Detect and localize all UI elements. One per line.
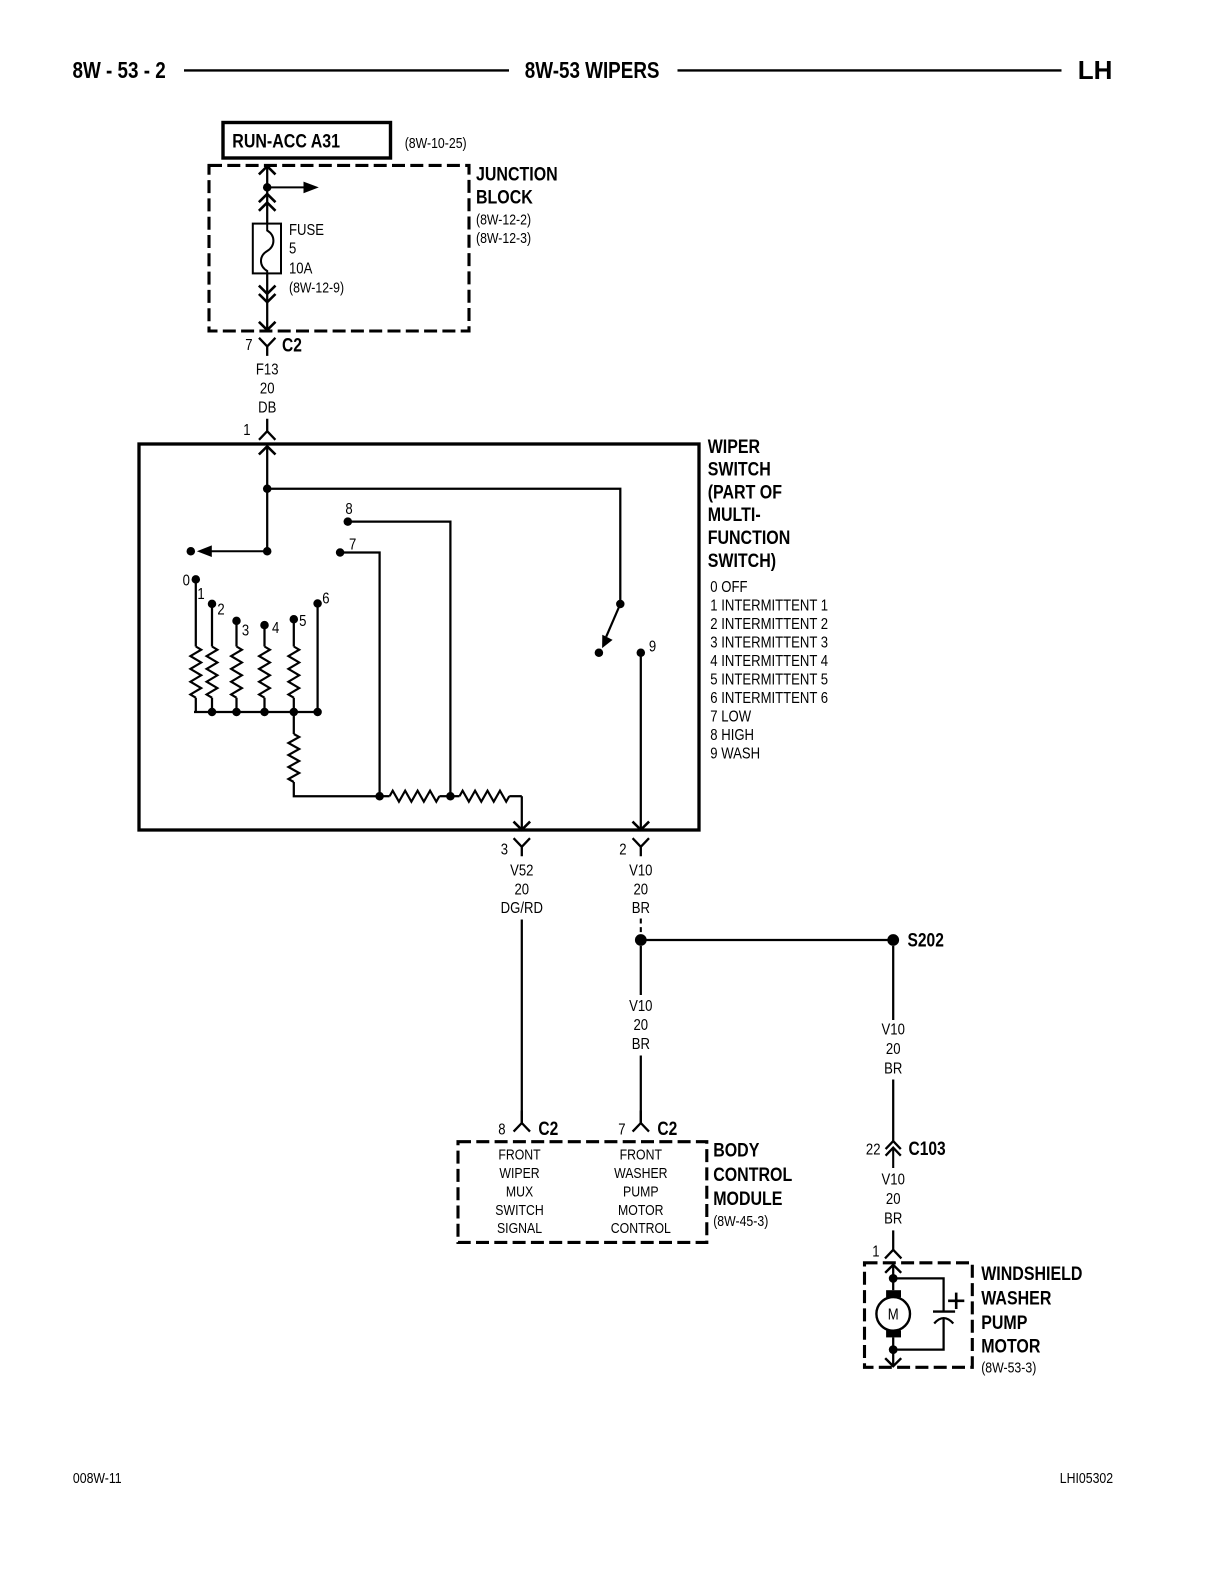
svg-text:9 WASH: 9 WASH [710,746,760,763]
wire: V10 to BCM lower [640,1056,642,1124]
svg-text:5: 5 [299,613,306,630]
svg-text:PUMP: PUMP [623,1183,659,1199]
resistor R8 [450,791,521,802]
svg-text:V10: V10 [629,998,652,1015]
resistor R5 (intermittent 5) [288,619,299,712]
capacitor polarity plus [948,1293,964,1309]
svg-text:SIGNAL: SIGNAL [497,1220,542,1236]
node: feed splice in junction block [263,183,272,192]
svg-text:20: 20 [886,1041,901,1058]
label 1 [197,586,204,603]
svg-text:MUX: MUX [506,1183,533,1199]
node: contact 5 [290,615,299,624]
svg-text:5 INTERMITTENT 5: 5 INTERMITTENT 5 [710,671,828,688]
svg-text:4 INTERMITTENT 4: 4 INTERMITTENT 4 [710,653,828,670]
wiper switch box [139,444,699,830]
wire: to connector C103 [892,1080,894,1141]
label 0 [183,572,190,589]
body control module box (dashed) [458,1142,707,1243]
wire: contact 6 to bus [316,604,318,713]
svg-text:BODY: BODY [713,1139,759,1161]
connector C2 pin 8 (BCM) [498,1111,558,1140]
junction block labels [476,163,558,246]
node: R7 junction [375,792,384,801]
svg-text:MOTOR: MOTOR [618,1202,664,1218]
svg-text:F13: F13 [256,361,279,378]
svg-text:(8W-12-9): (8W-12-9) [289,279,344,295]
wire: contact 7 branch [340,553,380,797]
svg-text:2: 2 [619,841,626,858]
svg-text:BR: BR [632,900,650,917]
svg-text:DB: DB [258,399,276,416]
svg-text:2 INTERMITTENT 2: 2 INTERMITTENT 2 [710,616,828,633]
svg-text:(PART OF: (PART OF [708,481,782,503]
footer sheet codes [73,1470,1113,1486]
svg-text:WASHER: WASHER [614,1165,668,1181]
wire: feed to wash contact branch [267,489,620,604]
wiper switch labels [708,435,791,571]
node: bus junction x317 [313,708,322,717]
connector C2 pin 7 [245,334,302,356]
node: bus junction x264 [260,708,269,717]
svg-text:1: 1 [243,422,250,439]
wire: V10 into splice (dashed) [640,919,642,934]
node: R8 junction [446,792,455,801]
svg-text:FRONT: FRONT [620,1146,663,1162]
svg-text:(8W-45-3): (8W-45-3) [713,1213,768,1229]
svg-text:3: 3 [242,622,249,639]
motor M1 washer pump [876,1290,910,1337]
svg-text:1: 1 [197,586,204,603]
svg-text:7: 7 [618,1121,625,1138]
svg-text:FUNCTION: FUNCTION [708,527,791,549]
node: contact 6 [313,599,322,608]
node: wiper arm junction [263,547,272,556]
svg-text:7 LOW: 7 LOW [710,708,751,725]
wire: V52 run [521,920,523,1124]
node: motor output junction [889,1345,898,1354]
wire label V52 20 DG/RD [501,862,543,917]
switch blade (wash) [602,604,620,648]
svg-text:BR: BR [632,1036,650,1053]
svg-text:BR: BR [884,1060,902,1077]
wire: splice S202 tie [641,939,893,941]
wire: motor ground side [892,1337,894,1365]
svg-text:DG/RD: DG/RD [501,900,543,917]
svg-text:WASHER: WASHER [981,1287,1051,1309]
ref (8W-10-25) [405,135,467,151]
resistor R4 (intermittent 4) [259,625,270,712]
label 6 [322,591,329,608]
node: contact 3 [232,617,241,626]
svg-text:S202: S202 [908,929,944,951]
node: feed junction A [263,485,272,494]
svg-text:M: M [888,1307,899,1324]
svg-text:FUSE: FUSE [289,222,324,239]
svg-text:8W - 53 - 2: 8W - 53 - 2 [73,58,166,83]
washer pump labels [981,1263,1082,1376]
wire: wash output [633,653,650,830]
svg-text:9: 9 [649,638,656,655]
svg-text:C103: C103 [909,1138,947,1160]
label 5 [299,613,306,630]
svg-text:WINDSHIELD: WINDSHIELD [981,1263,1082,1285]
label 4 [272,620,279,637]
svg-text:7: 7 [349,536,356,553]
svg-text:SWITCH: SWITCH [708,458,771,480]
label 7 [349,536,356,553]
node: wash switch pivot [616,600,625,609]
svg-text:LHI05302: LHI05302 [1060,1470,1113,1486]
resistor bus [194,711,318,713]
power feed box RUN-ACC A31 [223,123,391,159]
svg-text:(8W-53-3): (8W-53-3) [981,1360,1036,1376]
svg-text:RUN-ACC A31: RUN-ACC A31 [232,130,340,152]
page header [73,55,1113,85]
svg-text:PUMP: PUMP [981,1311,1027,1333]
wire: V10 to BCM [640,946,642,995]
connector C103 pin 22 [866,1138,946,1168]
node: contact 1 [192,575,201,584]
node: contact 9 (WASH) [637,649,646,658]
svg-text:6: 6 [322,591,329,608]
resistor R7 [380,791,451,802]
node: bus junction x293 [290,708,299,717]
svg-text:20: 20 [886,1191,901,1208]
wire: battery feed entering junction block [259,166,276,223]
wire label V10 20 BR (S202 branch) [882,1021,905,1077]
junction block (dashed) [209,165,469,331]
wire: pump feed entry [885,1265,901,1290]
svg-text:0: 0 [183,572,190,589]
svg-text:20: 20 [634,881,649,898]
resistor R2 (intermittent 2) [207,604,218,712]
svg-text:SWITCH): SWITCH) [708,549,776,571]
svg-text:22: 22 [866,1141,881,1158]
fuse 5 10A [253,224,281,274]
svg-text:V52: V52 [510,862,533,879]
wire: S202 to C103 [892,946,894,1020]
BCM pin 7 function label [611,1146,671,1236]
fuse value labels [289,222,344,296]
svg-text:C2: C2 [282,334,302,356]
resistor R6 (series) [288,712,379,796]
svg-text:FRONT: FRONT [498,1146,541,1162]
node: V10 splice junction [635,934,647,946]
svg-text:BR: BR [884,1211,902,1228]
node: contact 2 [208,600,217,609]
wiper arm arrow pointing at position 0 [197,545,267,557]
arrow: circuit continues (ground side) [885,1358,901,1366]
svg-text:6 INTERMITTENT 6: 6 INTERMITTENT 6 [710,690,828,707]
svg-text:8: 8 [498,1121,505,1138]
label 3 [242,622,249,639]
svg-text:(8W-10-25): (8W-10-25) [405,135,467,151]
svg-text:4: 4 [272,620,279,637]
wire: contact 8 branch [348,522,451,797]
node: wash blade rest contact [595,649,604,658]
svg-text:JUNCTION: JUNCTION [476,163,558,185]
node: contact 7 (LOW) [336,548,345,557]
svg-text:BLOCK: BLOCK [476,186,533,208]
svg-text:C2: C2 [657,1118,677,1140]
svg-text:20: 20 [634,1017,649,1034]
label 9 [649,638,656,655]
svg-text:1: 1 [872,1243,879,1260]
label 8 [345,501,352,518]
svg-text:8W-53 WIPERS: 8W-53 WIPERS [525,58,660,83]
svg-text:WIPER: WIPER [499,1165,539,1181]
svg-text:2: 2 [217,601,224,618]
svg-text:(8W-12-2): (8W-12-2) [476,211,531,227]
svg-text:CONTROL: CONTROL [713,1163,792,1185]
resistor R3 (intermittent 3) [231,621,242,712]
svg-text:10A: 10A [289,260,313,277]
arrow: feed to other circuits [267,182,319,194]
switch position list [710,579,828,763]
node: bus junction x236 [232,708,241,717]
wire label V10 20 BR (after C103) [882,1171,905,1228]
svg-text:3: 3 [501,841,508,858]
node: contact 8 (HIGH) [344,517,353,526]
resistor R1 (intermittent 1) [190,579,201,712]
connector: switch pin 3 [501,838,530,858]
svg-text:3 INTERMITTENT 3: 3 INTERMITTENT 3 [710,634,828,651]
node: bus junction x212 [208,708,217,717]
wire: switch feed (entry) [259,446,276,551]
svg-text:MODULE: MODULE [713,1187,782,1209]
node: contact 0 [187,547,196,556]
svg-text:LH: LH [1078,55,1113,85]
svg-text:20: 20 [515,881,530,898]
wire: C103 to washer pump [892,1230,894,1249]
svg-text:(8W-12-3): (8W-12-3) [476,230,531,246]
svg-text:MULTI-: MULTI- [708,504,761,526]
node: motor feed junction [889,1274,898,1283]
svg-text:CONTROL: CONTROL [611,1220,671,1236]
capacitor (noise suppression) [893,1278,955,1349]
svg-text:MOTOR: MOTOR [981,1335,1040,1357]
label 2 [217,601,224,618]
current direction arrows (up) [259,194,276,211]
svg-text:1 INTERMITTENT 1: 1 INTERMITTENT 1 [710,597,828,614]
svg-text:8 HIGH: 8 HIGH [710,727,754,744]
BCM labels [713,1139,792,1229]
svg-text:20: 20 [260,380,275,397]
wire label F13 20 DB [256,361,279,416]
node: contact 4 [260,621,269,630]
windshield washer pump motor box (dashed) [865,1263,973,1368]
svg-text:8: 8 [345,501,352,518]
wire label V10 20 BR (upper) [629,862,652,917]
svg-text:C2: C2 [538,1118,558,1140]
svg-text:008W-11: 008W-11 [73,1470,122,1486]
svg-text:V10: V10 [629,862,652,879]
svg-text:5: 5 [289,240,296,257]
connector C2 pin 7 (BCM) [618,1111,677,1140]
connector: washer pump pin 1 [872,1243,901,1260]
svg-text:7: 7 [245,337,252,354]
svg-text:SWITCH: SWITCH [495,1202,543,1218]
BCM pin 8 function label [495,1146,543,1236]
wire: mux signal output [514,796,531,830]
svg-text:V10: V10 [882,1171,905,1188]
wire: fuse output with current arrows [259,273,276,330]
splice S202 [887,934,899,946]
label S202 [908,929,944,951]
svg-text:0 OFF: 0 OFF [710,579,747,596]
wire label V10 20 BR (to BCM) [629,998,652,1053]
svg-text:WIPER: WIPER [708,435,761,457]
svg-text:V10: V10 [882,1021,905,1038]
connector: wiper switch pin 1 [243,419,275,440]
connector: switch pin 2 [619,838,649,858]
